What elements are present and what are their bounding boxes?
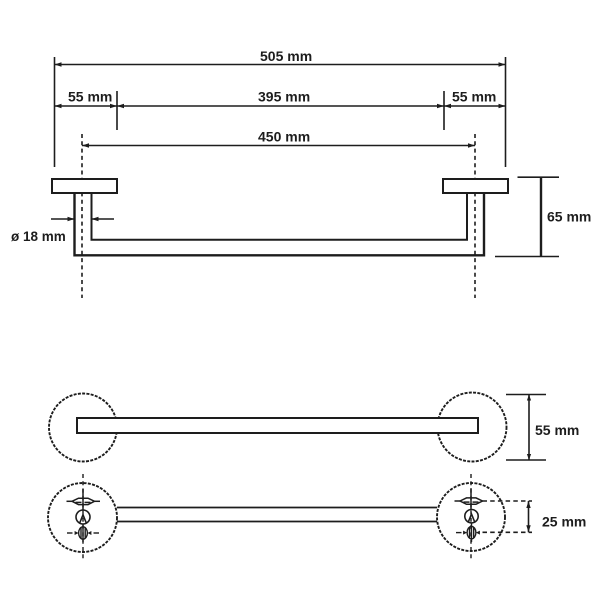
phillips screw left — [67, 524, 99, 542]
screw head left — [76, 510, 90, 524]
tick line 55mm right — [443, 91, 445, 130]
svg-text:55 mm: 55 mm — [68, 89, 112, 105]
wall rosette left (bottom view) — [48, 483, 117, 552]
svg-text:65 mm: 65 mm — [547, 209, 591, 225]
bar bottom line (bottom view) — [117, 521, 437, 523]
svg-text:395 mm: 395 mm — [258, 89, 310, 105]
svg-text:ø 18 mm: ø 18 mm — [11, 229, 66, 244]
bar (front view) — [77, 418, 478, 433]
svg-text:25 mm: 25 mm — [542, 514, 586, 530]
bar outer outline (side view) — [75, 193, 485, 255]
toggle anchor left — [67, 489, 101, 511]
dimension line 505 mm — [55, 48, 506, 67]
bar inner outline (side view) — [92, 193, 468, 240]
centerline right post — [474, 134, 476, 298]
dimension 65 mm — [495, 177, 591, 256]
wall rosette right (front view) — [438, 393, 507, 462]
svg-text:505 mm: 505 mm — [260, 48, 312, 64]
centerline right rosette (bottom view) — [470, 474, 472, 560]
phillips screw right — [456, 524, 480, 543]
screw head right — [465, 510, 478, 523]
svg-text:55 mm: 55 mm — [535, 422, 579, 438]
bar top line (bottom view) — [117, 507, 437, 509]
dimension line 450 mm — [82, 129, 475, 148]
wall plate right (side view) — [443, 179, 508, 193]
wall plate left (side view) — [52, 179, 117, 193]
tick line 55mm left — [116, 91, 118, 130]
extension line left — [54, 57, 56, 167]
centerline left post — [81, 134, 83, 298]
dimension 25 mm (bottom view) — [483, 501, 587, 532]
wall rosette left (front view) — [49, 394, 117, 462]
toggle anchor right — [455, 488, 483, 510]
svg-text:55 mm: 55 mm — [452, 89, 496, 105]
dimension 55 mm (front view) — [506, 395, 579, 461]
dimension line 55 / 395 / 55 mm — [55, 89, 506, 109]
extension line right — [505, 57, 507, 167]
centerline left rosette (bottom view) — [82, 474, 84, 560]
wall rosette right (bottom view) — [437, 483, 505, 551]
svg-text:450 mm: 450 mm — [258, 129, 310, 145]
diameter pointer ø18 — [11, 217, 114, 244]
